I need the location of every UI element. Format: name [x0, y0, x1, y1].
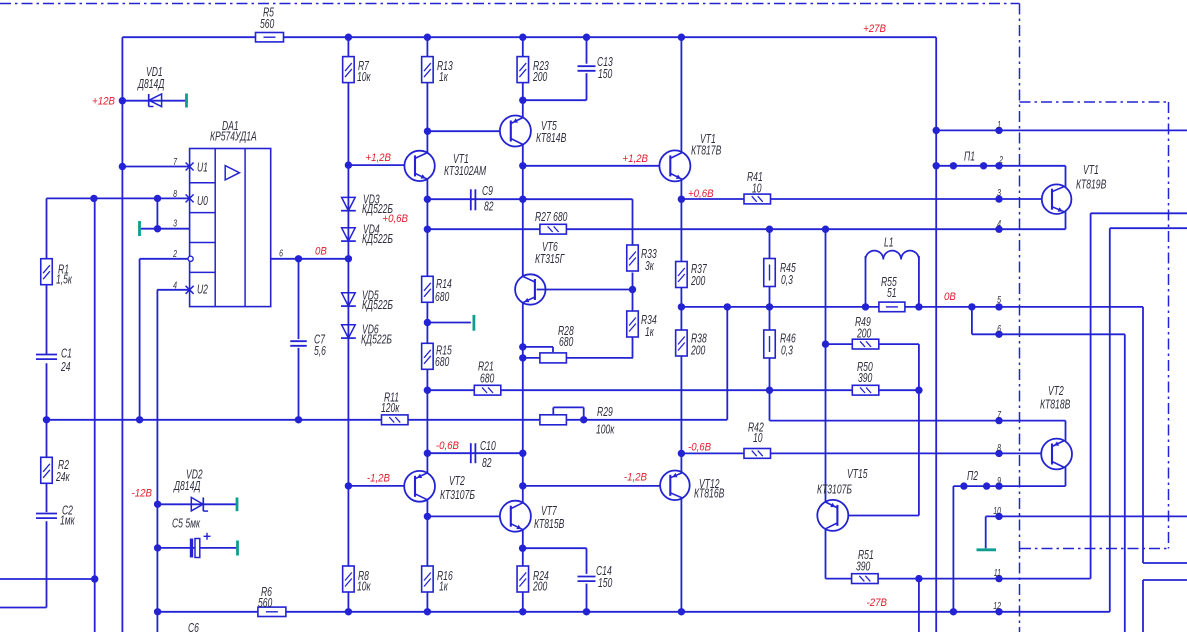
svg-text:+1,2В: +1,2В — [365, 151, 391, 164]
svg-text:+27В: +27В — [863, 22, 886, 35]
svg-text:+0,6В: +0,6В — [382, 212, 408, 225]
svg-text:-27В: -27В — [867, 596, 887, 609]
svg-text:5,6: 5,6 — [314, 344, 327, 358]
svg-text:10: 10 — [993, 505, 1001, 517]
svg-text:VT2: VT2 — [1048, 384, 1064, 398]
svg-text:КТ819В: КТ819В — [1076, 178, 1106, 192]
svg-text:0,3: 0,3 — [781, 344, 794, 358]
svg-text:КР574УД1А: КР574УД1А — [210, 130, 257, 144]
svg-text:24: 24 — [60, 360, 70, 374]
svg-text:3: 3 — [997, 187, 1001, 199]
svg-text:КТ818В: КТ818В — [1040, 398, 1070, 412]
svg-text:4: 4 — [173, 279, 177, 291]
svg-text:+12В: +12В — [92, 95, 115, 108]
svg-text:12: 12 — [993, 600, 1001, 612]
svg-text:П2: П2 — [967, 469, 978, 483]
svg-text:200: 200 — [690, 274, 706, 288]
svg-text:51: 51 — [887, 286, 897, 300]
svg-text:КТ3107Б: КТ3107Б — [440, 488, 475, 502]
svg-text:КД522Б: КД522Б — [362, 298, 393, 312]
svg-text:U0: U0 — [197, 194, 209, 208]
svg-text:3: 3 — [173, 217, 177, 229]
svg-text:R27 680: R27 680 — [535, 210, 568, 224]
svg-text:200: 200 — [532, 580, 548, 594]
svg-text:-1,2В: -1,2В — [367, 472, 390, 485]
svg-text:Д814Д: Д814Д — [172, 479, 200, 493]
svg-text:С1: С1 — [61, 347, 72, 361]
svg-text:1мк: 1мк — [60, 514, 75, 528]
svg-text:+1,2В: +1,2В — [622, 152, 648, 165]
svg-text:6: 6 — [997, 323, 1001, 335]
svg-text:C10: C10 — [480, 439, 496, 453]
svg-text:КД522Б: КД522Б — [361, 333, 392, 347]
svg-text:1к: 1к — [439, 70, 448, 84]
svg-text:0В: 0В — [315, 245, 327, 258]
svg-text:VT2: VT2 — [449, 474, 465, 488]
svg-text:Д814Д: Д814Д — [136, 77, 164, 91]
svg-text:-0,6В: -0,6В — [436, 439, 459, 452]
svg-text:680: 680 — [559, 335, 574, 349]
svg-text:2: 2 — [172, 248, 177, 260]
svg-text:100к: 100к — [596, 423, 615, 437]
svg-text:6: 6 — [279, 247, 283, 259]
svg-text:10к: 10к — [357, 580, 371, 594]
svg-text:VT1: VT1 — [1083, 163, 1099, 177]
svg-text:680: 680 — [480, 372, 495, 386]
svg-text:П1: П1 — [964, 150, 975, 164]
svg-text:2: 2 — [998, 154, 1003, 166]
svg-text:С6: С6 — [188, 621, 200, 632]
svg-text:КТ3107Б: КТ3107Б — [817, 483, 852, 497]
svg-text:3к: 3к — [645, 259, 654, 273]
svg-text:200: 200 — [532, 70, 548, 84]
svg-text:120к: 120к — [381, 401, 400, 415]
svg-text:КТ3102АМ: КТ3102АМ — [444, 164, 487, 178]
svg-text:560: 560 — [258, 596, 273, 610]
svg-text:10: 10 — [752, 182, 762, 196]
svg-text:680: 680 — [435, 290, 450, 304]
svg-text:U2: U2 — [197, 283, 208, 297]
svg-text:КТ817В: КТ817В — [691, 144, 721, 158]
svg-text:R29: R29 — [597, 405, 613, 419]
svg-text:-1,2В: -1,2В — [624, 471, 647, 484]
svg-text:200: 200 — [856, 327, 872, 341]
svg-text:С5 5мк: С5 5мк — [172, 517, 201, 531]
svg-text:11: 11 — [994, 567, 1001, 579]
svg-text:VT15: VT15 — [847, 467, 868, 481]
svg-text:390: 390 — [858, 371, 873, 385]
svg-text:1: 1 — [997, 119, 1001, 131]
svg-text:C9: C9 — [482, 184, 493, 198]
svg-text:4: 4 — [997, 218, 1001, 230]
svg-text:8: 8 — [997, 442, 1001, 454]
svg-text:1,5к: 1,5к — [56, 273, 73, 287]
svg-text:U1: U1 — [197, 161, 208, 175]
svg-text:9: 9 — [997, 475, 1001, 487]
svg-text:10к: 10к — [357, 70, 371, 84]
svg-text:680: 680 — [435, 355, 450, 369]
svg-text:КТ815В: КТ815В — [534, 517, 564, 531]
svg-text:560: 560 — [260, 17, 275, 31]
svg-text:150: 150 — [598, 67, 613, 81]
svg-text:-0,6В: -0,6В — [688, 441, 711, 454]
svg-text:1к: 1к — [645, 325, 654, 339]
svg-text:-12В: -12В — [132, 487, 152, 500]
svg-text:КТ315Г: КТ315Г — [535, 252, 565, 266]
svg-text:0В: 0В — [944, 290, 956, 303]
svg-text:10: 10 — [753, 431, 763, 445]
svg-text:КТ816В: КТ816В — [694, 487, 724, 501]
svg-text:8: 8 — [173, 188, 177, 200]
svg-text:390: 390 — [856, 560, 871, 574]
svg-text:+0,6В: +0,6В — [688, 187, 714, 200]
svg-text:150: 150 — [598, 576, 613, 590]
svg-text:КТ814В: КТ814В — [536, 131, 566, 145]
svg-text:0,3: 0,3 — [781, 273, 794, 287]
svg-text:24к: 24к — [55, 470, 70, 484]
svg-text:L1: L1 — [884, 236, 894, 250]
svg-text:1к: 1к — [439, 580, 448, 594]
svg-text:82: 82 — [484, 200, 494, 214]
svg-text:КД522Б: КД522Б — [362, 232, 393, 246]
svg-text:5: 5 — [997, 294, 1001, 306]
svg-text:82: 82 — [482, 456, 492, 470]
svg-text:200: 200 — [690, 344, 706, 358]
